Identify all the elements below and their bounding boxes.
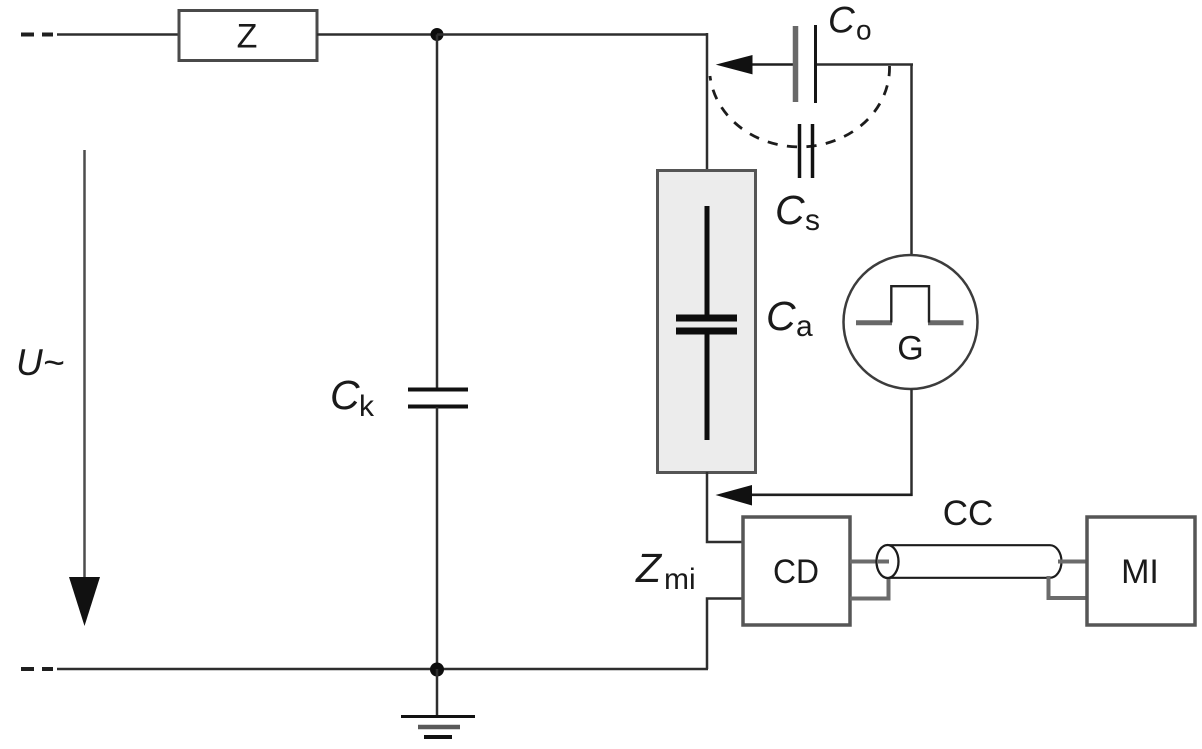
bottom rail wire [57, 668, 708, 671]
pulse baseline right [928, 320, 964, 325]
svg-text:G: G [897, 330, 923, 368]
node junction bottom (dot) [430, 663, 444, 677]
label Co [828, 0, 872, 46]
wire node to ground [436, 669, 439, 716]
svg-text:MI: MI [1121, 553, 1159, 591]
svg-text:C: C [775, 187, 805, 233]
wire top-left dash 1 [21, 33, 34, 37]
coupling capacitor Ck plates [408, 390, 468, 407]
capacitor Cs plates (dashed path) [800, 124, 813, 178]
wire bottom-left dash 2 [42, 667, 53, 671]
wire down to generator G [910, 65, 913, 257]
stub tip inside cable ellipse [877, 560, 889, 564]
wire Ck lower [436, 407, 439, 669]
filter impedance Z [179, 11, 317, 61]
measuring instrument MI [1087, 517, 1195, 625]
wire Co to right branch [817, 63, 913, 66]
Ca electrode bottom [705, 333, 710, 440]
svg-text:a: a [796, 310, 813, 343]
Ca plate 1 [676, 315, 737, 322]
arrow into Ca top node [716, 55, 795, 74]
svg-text:s: s [805, 204, 820, 237]
svg-text:C: C [330, 372, 360, 418]
voltage arrow line [83, 150, 86, 580]
CD right upper stub [850, 560, 889, 564]
pulse step [891, 286, 929, 322]
wire G to lower arrow [910, 389, 913, 496]
node junction top (dot) [431, 28, 444, 41]
capacitor Co plates [796, 25, 816, 103]
test object Ca box [658, 171, 756, 473]
calibration generator G [844, 255, 978, 389]
svg-text:C: C [766, 293, 796, 339]
svg-text:C: C [828, 0, 855, 41]
voltage arrow head [69, 577, 100, 626]
Ca electrode top [705, 206, 710, 316]
wire top-left dash 2 [42, 33, 53, 37]
label Zmi [635, 545, 696, 596]
cable to MI upper stub [1058, 560, 1087, 564]
svg-text:CD: CD [773, 553, 819, 591]
label Cs [775, 187, 820, 237]
label Ck [330, 372, 375, 423]
svg-text:k: k [359, 390, 375, 423]
CD right lower stub [850, 576, 889, 599]
svg-text:CC: CC [943, 494, 994, 533]
cable to MI lower stub [1049, 576, 1088, 598]
svg-text:mi: mi [664, 563, 696, 596]
wire Z to top node [317, 33, 437, 36]
wire down to Ca [706, 33, 709, 171]
ground symbol [401, 717, 475, 738]
Ca plate 2 [676, 328, 737, 335]
svg-text:Z: Z [237, 18, 258, 56]
wire Ca bottom to CD upper terminal [707, 472, 742, 542]
svg-text:o: o [856, 15, 872, 46]
stray capacitance dashed arc [710, 66, 890, 147]
coaxial cable CC body [888, 545, 1061, 578]
coupling device CD [743, 517, 850, 625]
wire CD lower terminal to bottom rail [707, 599, 742, 670]
svg-text:U~: U~ [16, 342, 64, 383]
pulse baseline left [856, 320, 892, 325]
svg-text:Z: Z [635, 545, 663, 591]
wire from dashes to Z [57, 33, 179, 36]
label Ca [766, 293, 813, 343]
coaxial cable left end ellipse [877, 545, 899, 578]
wire bottom-left dash 1 [21, 667, 34, 671]
arrow into Ca bottom node [716, 485, 913, 506]
wire top node to Ca branch [437, 33, 708, 36]
wire Ck upper [436, 35, 439, 390]
